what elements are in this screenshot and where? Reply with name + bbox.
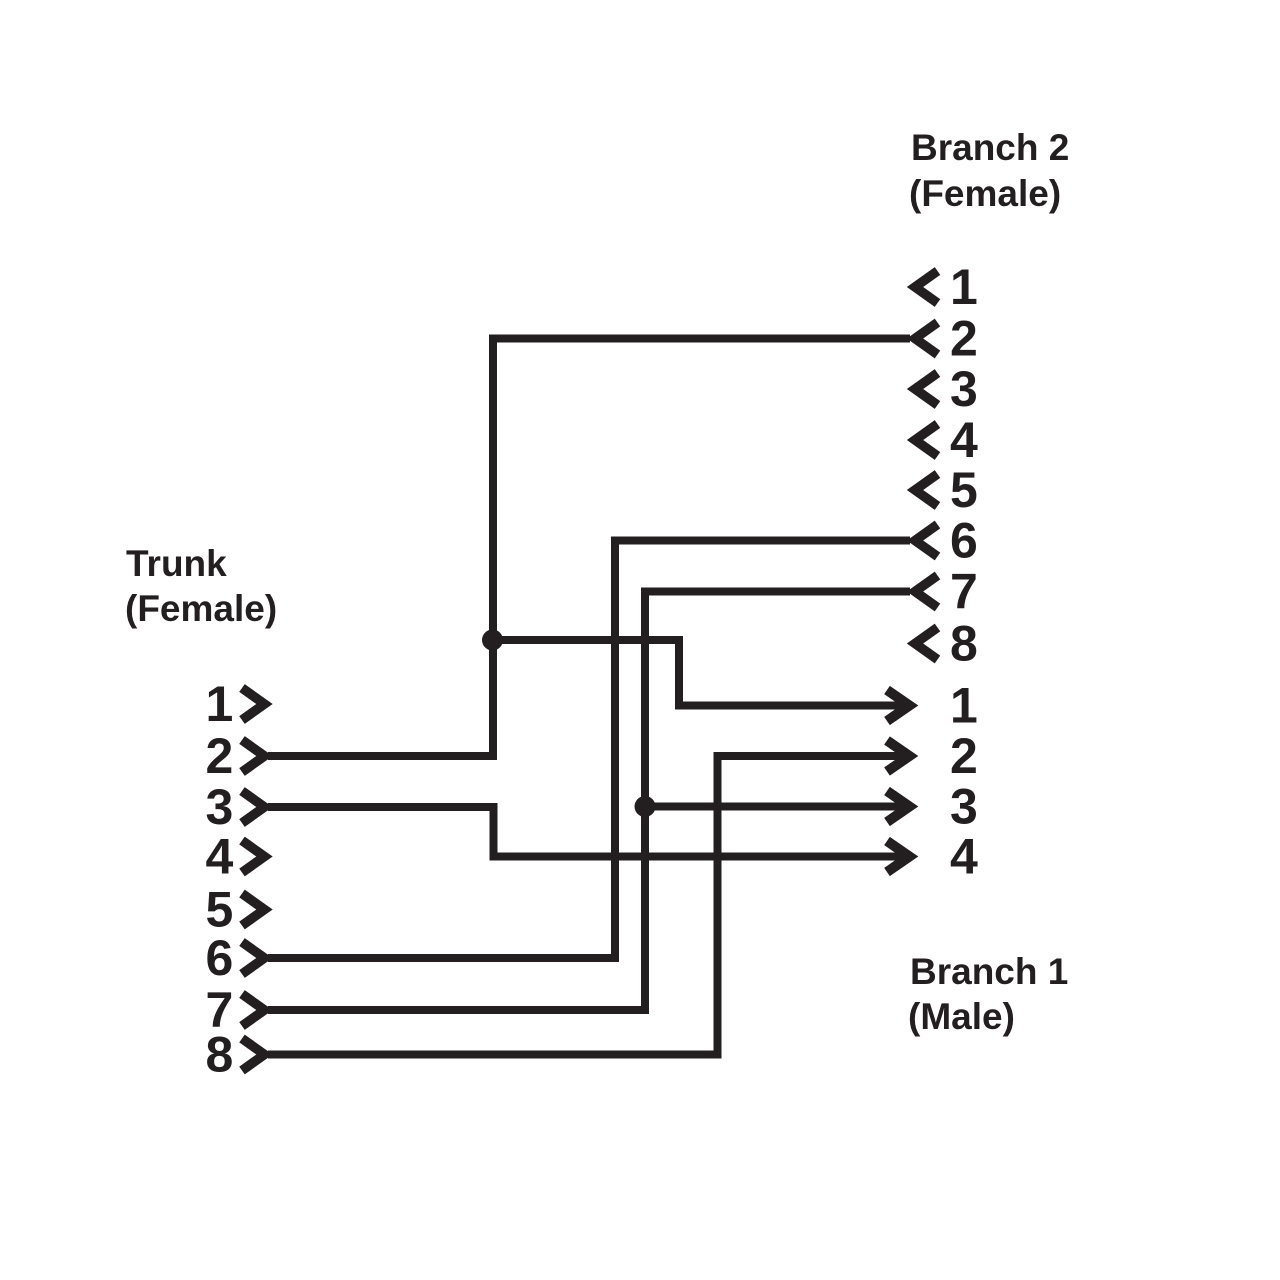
branch 1 pin 1 bbox=[887, 678, 978, 734]
svg-text:1: 1 bbox=[206, 676, 234, 732]
trunk pin 7 bbox=[206, 982, 265, 1038]
svg-text:6: 6 bbox=[950, 513, 978, 569]
svg-text:Trunk: Trunk bbox=[126, 543, 227, 584]
svg-text:Branch 1: Branch 1 bbox=[910, 951, 1068, 992]
svg-text:4: 4 bbox=[950, 412, 978, 468]
label Trunk (Female) bbox=[125, 543, 277, 629]
svg-text:3: 3 bbox=[950, 779, 978, 835]
branch 2 pin 7 bbox=[915, 564, 978, 620]
svg-text:1: 1 bbox=[950, 259, 978, 315]
svg-text:8: 8 bbox=[206, 1027, 234, 1083]
branch 1 pin 2 bbox=[887, 728, 978, 784]
branch 2 pin 1 bbox=[915, 259, 978, 315]
trunk pin 4 bbox=[206, 829, 265, 885]
svg-text:3: 3 bbox=[206, 779, 234, 835]
junction dot on trunk7 wire bbox=[635, 796, 656, 817]
branch 1 pin 4 bbox=[887, 829, 978, 885]
svg-text:2: 2 bbox=[950, 728, 978, 784]
svg-text:8: 8 bbox=[950, 616, 978, 672]
trunk pin 5 bbox=[206, 882, 265, 938]
svg-text:6: 6 bbox=[206, 930, 234, 986]
svg-text:Branch 2: Branch 2 bbox=[911, 127, 1069, 168]
svg-text:(Female): (Female) bbox=[909, 173, 1061, 214]
svg-text:3: 3 bbox=[950, 361, 978, 417]
wire trunk3 to branch1-4 bbox=[268, 807, 910, 857]
trunk pin 6 bbox=[206, 930, 265, 986]
svg-text:4: 4 bbox=[206, 829, 234, 885]
trunk pin 2 bbox=[206, 728, 265, 784]
svg-text:2: 2 bbox=[206, 728, 234, 784]
wire junction to branch1-1 bbox=[493, 640, 910, 706]
wire junction to branch1-3 bbox=[645, 803, 910, 811]
trunk pin 8 bbox=[206, 1027, 265, 1083]
branch 2 pin 3 bbox=[915, 361, 978, 417]
branch 2 pin 4 bbox=[915, 412, 978, 468]
label Branch 2 (Female) bbox=[909, 127, 1069, 214]
svg-text:1: 1 bbox=[950, 678, 978, 734]
junction dot on trunk2 wire bbox=[482, 630, 503, 651]
wire trunk7 to branch2-7 bbox=[268, 592, 910, 1011]
wire trunk6 to branch2-6 bbox=[268, 541, 910, 959]
svg-text:(Female): (Female) bbox=[125, 588, 277, 629]
wire trunk8 to branch1-2 bbox=[268, 756, 910, 1055]
svg-text:(Male): (Male) bbox=[908, 996, 1015, 1037]
branch 2 pin 6 bbox=[915, 513, 978, 569]
branch 1 pin 3 bbox=[887, 779, 978, 835]
branch 2 pin 2 bbox=[915, 311, 978, 367]
trunk pin 1 bbox=[206, 676, 265, 732]
svg-text:5: 5 bbox=[950, 462, 978, 518]
wire trunk2 to branch2-2 bbox=[268, 339, 910, 757]
svg-text:2: 2 bbox=[950, 311, 978, 367]
branch 2 pin 8 bbox=[915, 616, 978, 672]
svg-text:4: 4 bbox=[950, 829, 978, 885]
branch 2 pin 5 bbox=[915, 462, 978, 518]
svg-text:7: 7 bbox=[950, 564, 978, 620]
label Branch 1 (Male) bbox=[908, 951, 1068, 1037]
trunk pin 3 bbox=[206, 779, 265, 835]
